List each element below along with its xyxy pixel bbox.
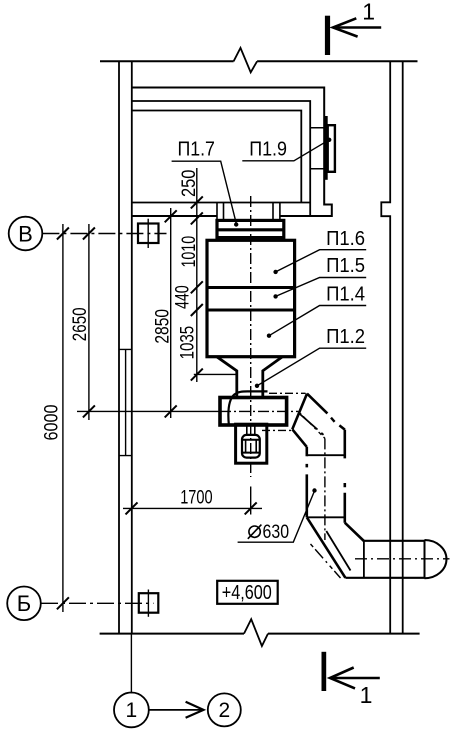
elbow top: miter joint — [300, 414, 324, 435]
fan outlet hidden edges — [262, 393, 306, 430]
svg-text:250: 250 — [179, 170, 200, 198]
svg-text:1700: 1700 — [180, 487, 212, 508]
elbow top: inlet edge — [292, 394, 307, 430]
right wall — [381, 61, 402, 633]
svg-text:2650: 2650 — [70, 307, 91, 341]
svg-text:630: 630 — [263, 522, 290, 543]
svg-text:П1.4: П1.4 — [326, 283, 365, 305]
svg-text:П1.7: П1.7 — [177, 139, 215, 161]
section mark 1 bottom — [322, 652, 380, 708]
П1.7 stub double walls — [217, 203, 280, 221]
centerline vertical through unit — [250, 196, 252, 515]
motor bracket — [236, 424, 267, 463]
centerline vertical duct — [324, 438, 326, 540]
axis B(lower) line — [41, 602, 154, 604]
label П1.6 — [273, 228, 366, 274]
duct joints — [307, 455, 345, 517]
elbow top: inner edge — [292, 429, 307, 447]
svg-text:1035: 1035 — [177, 326, 198, 360]
axis B circle — [9, 217, 43, 251]
axis 1 circle — [114, 634, 149, 728]
label П1.4 — [267, 283, 366, 338]
axis B(lower) circle — [7, 587, 41, 621]
centerline elbow diagonal — [298, 411, 325, 438]
elbow bottom: outer edge — [307, 517, 346, 578]
fan П1.2 housing — [220, 398, 287, 426]
П1.9 outer box — [328, 125, 335, 172]
duct end cap — [425, 540, 447, 578]
column marker at B — [138, 219, 159, 248]
axis B line — [42, 233, 166, 235]
plenum box outer — [132, 88, 332, 217]
svg-text:6000: 6000 — [42, 405, 63, 441]
П1.7 flange block — [217, 220, 284, 237]
elbow top: outer edge — [307, 394, 345, 430]
svg-text:П1.6: П1.6 — [326, 228, 365, 250]
elevation label +4,600 — [217, 581, 278, 604]
label П1.7 — [172, 139, 239, 227]
svg-text:В: В — [18, 221, 33, 246]
П1.9 wall opening connectors — [310, 128, 324, 169]
reducer to fan duct — [217, 357, 283, 398]
label diameter 630 — [238, 488, 317, 543]
elbow bottom: miter joint — [326, 531, 350, 571]
elbow bottom: upper edge — [345, 523, 364, 541]
svg-text:+4,600: +4,600 — [222, 582, 272, 604]
vertical duct — [307, 430, 345, 523]
dimension lines — [63, 168, 262, 612]
svg-text:1: 1 — [126, 699, 138, 722]
label П1.5 — [273, 255, 366, 298]
centerline horizontal duct end — [355, 558, 450, 560]
fan scroll internals — [228, 391, 267, 425]
dimension ticks — [57, 196, 257, 609]
svg-text:440: 440 — [173, 285, 194, 309]
svg-text:2: 2 — [218, 699, 230, 722]
plenum box inner — [132, 111, 310, 203]
svg-text:1010: 1010 — [179, 236, 200, 268]
П1.9 damper bar — [324, 116, 327, 180]
motor shaft — [247, 426, 255, 435]
svg-text:П1.5: П1.5 — [326, 255, 365, 277]
window in left wall — [119, 349, 132, 455]
svg-text:1: 1 — [360, 682, 373, 708]
label П1.9 — [242, 138, 331, 161]
bottom wall line with break — [100, 619, 420, 646]
horizontal duct run — [345, 541, 424, 578]
plenum box middle — [132, 101, 310, 216]
centerline bottom diagonal — [311, 544, 341, 578]
svg-text:Б: Б — [17, 591, 31, 616]
label П1.2 — [255, 326, 366, 388]
left wall — [119, 61, 132, 633]
svg-text:1: 1 — [362, 0, 375, 25]
column marker at B(lower) — [139, 590, 159, 617]
top wall line with break — [100, 48, 418, 72]
svg-text:П1.2: П1.2 — [326, 326, 365, 348]
AHU unit П1.4-П1.6 — [207, 240, 295, 356]
svg-text:П1.9: П1.9 — [249, 139, 287, 161]
arrow between axis circles — [148, 702, 204, 718]
centerline horizontal through fan — [77, 410, 298, 412]
section mark 1 top — [325, 0, 381, 55]
axis 2 circle — [208, 693, 241, 726]
svg-text:2850: 2850 — [153, 309, 174, 344]
motor body — [242, 435, 260, 458]
